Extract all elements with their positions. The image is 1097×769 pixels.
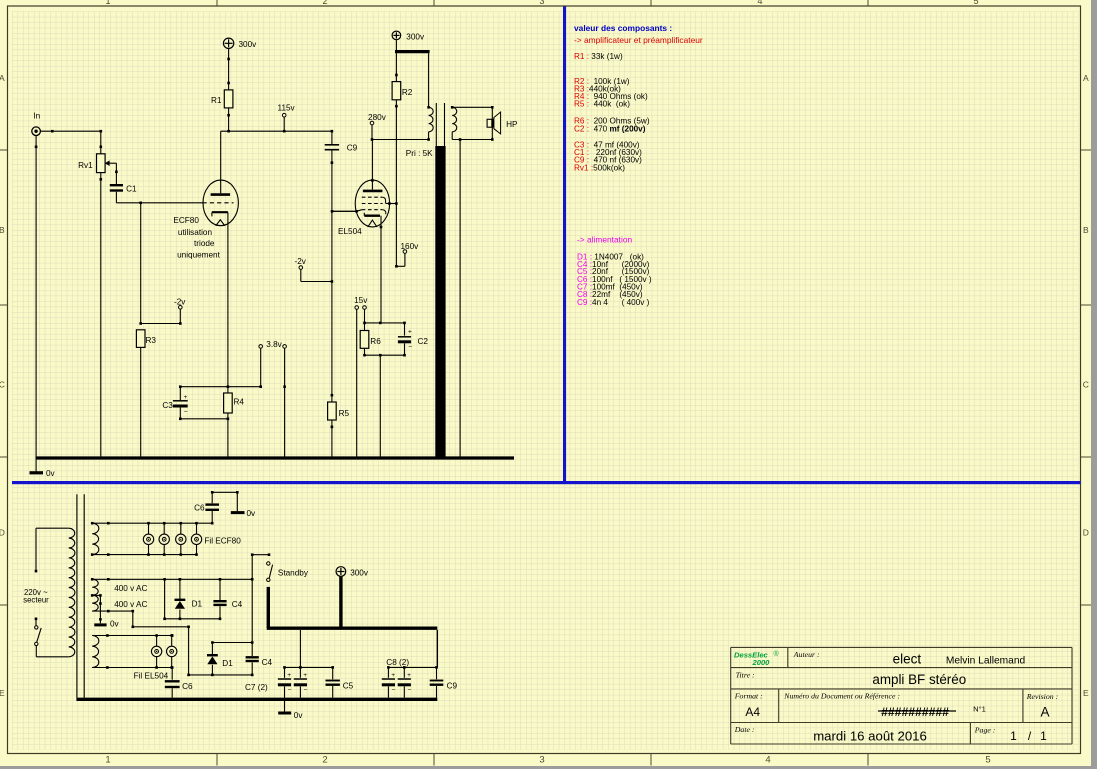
svg-text:-2v: -2v [295, 257, 307, 266]
svg-text:C9: C9 [447, 682, 458, 691]
svg-text:Format :: Format : [734, 692, 763, 701]
svg-text:+: + [391, 672, 395, 679]
svg-text:R5 : 440k (ok): R5 : 440k (ok) [574, 100, 630, 109]
svg-text:D: D [1083, 528, 1089, 538]
svg-text:C: C [1083, 380, 1089, 390]
svg-text:−: − [408, 687, 412, 694]
svg-text:triode: triode [194, 239, 215, 248]
svg-text:Revision :: Revision : [1026, 692, 1058, 701]
svg-text:0v: 0v [294, 711, 304, 720]
svg-text:A: A [1083, 73, 1089, 83]
svg-text:5: 5 [973, 0, 978, 6]
svg-text:elect: elect [893, 652, 922, 667]
svg-text:4: 4 [757, 0, 762, 6]
svg-text:C6: C6 [194, 503, 205, 512]
svg-text:mardi 16 août 2016: mardi 16 août 2016 [813, 729, 927, 744]
svg-text:Melvin Lallemand: Melvin Lallemand [946, 656, 1026, 667]
svg-text:R2: R2 [402, 88, 413, 97]
svg-text:R1: R1 [211, 96, 222, 105]
svg-text:0v: 0v [110, 620, 120, 629]
svg-text:C2: C2 [418, 337, 429, 346]
svg-text:Fil ECF80: Fil ECF80 [204, 536, 241, 545]
svg-text:C4: C4 [232, 600, 243, 609]
svg-text:2: 2 [322, 755, 327, 766]
svg-text:EL504: EL504 [338, 227, 362, 236]
svg-text:1: 1 [105, 0, 110, 6]
svg-text:300v: 300v [406, 33, 425, 42]
svg-text:15v: 15v [354, 296, 368, 305]
svg-text:1: 1 [1010, 729, 1017, 743]
svg-text:C5: C5 [343, 682, 354, 691]
svg-text:C: C [0, 380, 5, 390]
svg-text:−: − [304, 687, 308, 694]
svg-text:C9 :4n 4 ( 400v ): C9 :4n 4 ( 400v ) [577, 298, 650, 307]
svg-text:+: + [407, 672, 411, 679]
svg-text:A: A [0, 73, 5, 83]
svg-text:Auteur :: Auteur : [793, 650, 820, 659]
svg-text:2: 2 [322, 0, 327, 6]
svg-text:Titre :: Titre : [736, 670, 755, 679]
svg-text:Rv1: Rv1 [78, 161, 93, 170]
svg-text:B: B [0, 225, 5, 235]
svg-text:5: 5 [985, 755, 990, 766]
svg-text:C9: C9 [347, 144, 358, 153]
svg-text:Standby: Standby [278, 569, 309, 578]
svg-text:0v: 0v [46, 469, 56, 478]
svg-text:ampli BF stéréo: ampli BF stéréo [872, 672, 966, 687]
svg-text:valeur des composants :: valeur des composants : [574, 23, 672, 33]
svg-text:400 v AC: 400 v AC [114, 584, 147, 593]
svg-text:In: In [33, 112, 40, 121]
svg-text:R1 : 33k (1w): R1 : 33k (1w) [574, 52, 623, 61]
svg-text:+: + [287, 672, 291, 679]
svg-text:E: E [1083, 688, 1089, 698]
svg-text:A4: A4 [745, 705, 760, 719]
svg-text:+: + [303, 672, 307, 679]
svg-text:secteur: secteur [23, 596, 49, 605]
svg-text:®: ® [774, 650, 780, 658]
svg-text:D1: D1 [222, 659, 233, 668]
svg-text:C1: C1 [126, 185, 137, 194]
svg-text:C3: C3 [162, 401, 173, 410]
svg-text:3: 3 [539, 755, 544, 766]
svg-text:Date :: Date : [734, 725, 755, 734]
svg-text:Fil EL504: Fil EL504 [134, 671, 169, 680]
svg-text:1: 1 [105, 755, 110, 766]
svg-text:−: − [392, 687, 396, 694]
svg-text:uniquement: uniquement [177, 250, 221, 259]
svg-text:R4: R4 [234, 398, 245, 407]
svg-text:-> amplificateur et préamplifi: -> amplificateur et préamplificateur [574, 35, 703, 45]
svg-text:A: A [1041, 705, 1050, 720]
svg-text:Numéro du Document ou Référenc: Numéro du Document ou Référence : [783, 691, 900, 700]
svg-text:280v: 280v [368, 113, 387, 122]
svg-text:C2 : 470 mf (200v): C2 : 470 mf (200v) [574, 125, 646, 134]
svg-text:D1: D1 [192, 599, 203, 608]
svg-text:+: + [184, 394, 188, 401]
svg-text:B: B [1083, 225, 1089, 235]
svg-text:−: − [184, 409, 188, 416]
svg-text:Pri : 5K: Pri : 5K [406, 149, 433, 158]
svg-text:4: 4 [765, 755, 770, 766]
svg-text:N°1: N°1 [973, 704, 986, 713]
svg-text:400 v AC: 400 v AC [114, 600, 147, 609]
svg-text:R6: R6 [370, 337, 381, 346]
svg-text:Rv1 :500k(ok): Rv1 :500k(ok) [574, 164, 625, 173]
svg-text:2000: 2000 [752, 658, 771, 667]
svg-text:3: 3 [539, 0, 544, 6]
svg-text:##########: ########## [881, 705, 949, 719]
svg-text:C4: C4 [262, 658, 273, 667]
svg-text:R5: R5 [339, 409, 350, 418]
svg-text:300v: 300v [350, 569, 369, 578]
svg-text:+: + [408, 328, 412, 335]
svg-text:utilisation: utilisation [178, 228, 213, 237]
svg-text:-2v: -2v [174, 298, 186, 307]
svg-text:−: − [288, 687, 292, 694]
svg-text:0v: 0v [247, 509, 257, 518]
svg-text:D: D [0, 528, 5, 538]
svg-text:−: − [408, 344, 412, 351]
svg-text:115v: 115v [278, 104, 296, 113]
svg-text:C6: C6 [182, 682, 193, 691]
svg-text:3.8v: 3.8v [266, 340, 282, 349]
svg-text:E: E [0, 688, 5, 698]
svg-text:Page :: Page : [974, 726, 996, 735]
svg-text:1: 1 [1040, 729, 1047, 743]
svg-text:C7 (2): C7 (2) [245, 683, 268, 692]
svg-text:-> alimentation: -> alimentation [577, 235, 633, 245]
svg-text:HP: HP [506, 120, 518, 129]
svg-text:C8 (2): C8 (2) [386, 658, 409, 667]
svg-text:ECF80: ECF80 [173, 216, 199, 225]
svg-text:300v: 300v [239, 40, 258, 49]
svg-text:R3: R3 [146, 336, 157, 345]
svg-text:160v: 160v [401, 242, 420, 251]
